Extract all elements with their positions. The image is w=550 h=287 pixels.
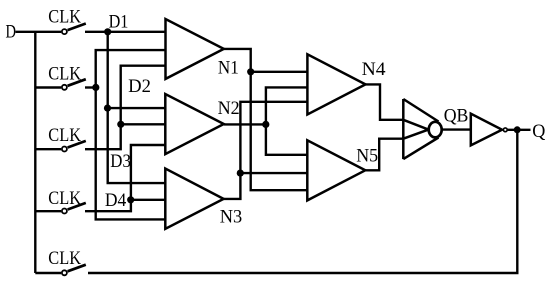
svg-text:CLK: CLK bbox=[48, 189, 81, 209]
svg-text:D2: D2 bbox=[128, 77, 151, 97]
svg-text:CLK: CLK bbox=[48, 126, 81, 146]
svg-text:N1: N1 bbox=[218, 58, 239, 78]
svg-text:CLK: CLK bbox=[48, 8, 81, 28]
svg-text:N2: N2 bbox=[218, 99, 240, 119]
svg-text:N5: N5 bbox=[356, 147, 378, 167]
svg-text:CLK: CLK bbox=[48, 65, 81, 85]
svg-text:N4: N4 bbox=[362, 60, 386, 80]
svg-text:D: D bbox=[6, 22, 17, 42]
svg-text:N3: N3 bbox=[220, 208, 243, 228]
svg-text:D4: D4 bbox=[105, 191, 126, 211]
svg-text:D1: D1 bbox=[109, 13, 129, 33]
svg-text:QB: QB bbox=[444, 106, 469, 126]
svg-text:D3: D3 bbox=[110, 152, 131, 172]
svg-text:Q: Q bbox=[532, 122, 546, 142]
svg-text:CLK: CLK bbox=[48, 249, 81, 269]
